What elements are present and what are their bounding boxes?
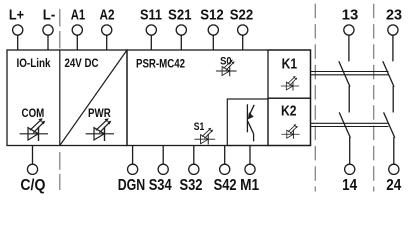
wire 13 down xyxy=(348,35,350,61)
K2 contact blade xyxy=(384,112,395,137)
K2 contact blade xyxy=(339,112,350,137)
terminal S12 xyxy=(200,7,224,51)
terminal 13 xyxy=(342,7,359,36)
terminal M1 xyxy=(240,146,259,194)
LED K2 xyxy=(281,124,299,139)
svg-text:M1: M1 xyxy=(240,177,259,194)
svg-text:L+: L+ xyxy=(9,7,24,24)
K1 contact blade xyxy=(339,61,350,86)
relay K2 box xyxy=(268,98,311,145)
mechanical link K1 (double line) xyxy=(311,72,389,75)
terminal S11 xyxy=(140,7,162,51)
dashed section line mid (x=315.3) xyxy=(314,4,316,192)
wire between contacts xyxy=(348,86,350,113)
terminal A1 xyxy=(71,7,86,51)
terminal C/Q xyxy=(20,146,45,194)
svg-text:COM: COM xyxy=(22,106,45,120)
contact path 13-14 xyxy=(339,35,351,164)
svg-text:PWR: PWR xyxy=(88,106,111,120)
svg-text:S11: S11 xyxy=(140,7,162,24)
PSR-MC42 block xyxy=(127,50,311,146)
svg-text:DGN: DGN xyxy=(118,177,146,194)
svg-text:IO-Link: IO-Link xyxy=(17,56,51,70)
terminal A2 xyxy=(100,7,115,51)
wire between contacts xyxy=(392,86,394,113)
dashed section line right (x=373.7) xyxy=(373,4,375,192)
svg-text:PSR-MC42: PSR-MC42 xyxy=(136,56,185,70)
svg-text:14: 14 xyxy=(342,177,357,194)
terminal L- xyxy=(43,7,56,51)
relay K1 box xyxy=(268,50,311,98)
semiconductor output sub-box xyxy=(227,99,268,146)
LED PWR xyxy=(86,118,114,141)
terminal L+ xyxy=(9,7,24,51)
terminal 14 xyxy=(342,164,357,194)
wire 23 down xyxy=(392,35,394,61)
svg-text:S12: S12 xyxy=(200,7,224,24)
divider between IO-Link and 24V DC xyxy=(59,50,61,146)
power supply diagonal xyxy=(60,50,127,146)
LED S1 xyxy=(194,128,215,145)
svg-text:K1: K1 xyxy=(282,56,298,73)
svg-text:13: 13 xyxy=(342,7,359,24)
svg-text:S22: S22 xyxy=(230,7,254,24)
svg-text:S34: S34 xyxy=(149,177,172,194)
terminal S22 xyxy=(230,7,254,51)
svg-text:24V DC: 24V DC xyxy=(65,56,99,70)
svg-text:S1: S1 xyxy=(194,121,205,133)
svg-text:S32: S32 xyxy=(180,177,203,194)
terminal S21 xyxy=(168,7,192,51)
LED K1 xyxy=(281,76,299,91)
LED COM xyxy=(20,118,48,141)
dashed section line left (x=59.8) xyxy=(59,9,61,49)
svg-text:A2: A2 xyxy=(100,7,115,24)
K1 contact blade xyxy=(383,61,394,86)
wire to 24 xyxy=(393,137,395,164)
terminal S34 xyxy=(149,146,172,194)
terminal 24 xyxy=(386,164,401,194)
mechanical link K2 (double line) xyxy=(311,123,389,126)
svg-text:A1: A1 xyxy=(71,7,86,24)
IO-Link / 24V DC block xyxy=(7,50,127,146)
svg-text:K2: K2 xyxy=(281,103,297,120)
svg-text:L-: L- xyxy=(43,7,56,24)
svg-text:C/Q: C/Q xyxy=(20,177,45,194)
LED S0 xyxy=(216,60,237,77)
svg-text:24: 24 xyxy=(386,177,401,194)
svg-text:23: 23 xyxy=(386,7,402,24)
svg-text:S42: S42 xyxy=(214,177,237,194)
terminal 23 xyxy=(386,7,402,36)
terminal DGN xyxy=(118,146,146,194)
terminal S42 xyxy=(214,146,237,194)
contact path 23-24 xyxy=(383,35,395,164)
wire to 14 xyxy=(349,137,351,164)
semiconductor output transistor xyxy=(247,104,254,141)
svg-text:S21: S21 xyxy=(168,7,192,24)
terminal S32 xyxy=(180,146,203,194)
